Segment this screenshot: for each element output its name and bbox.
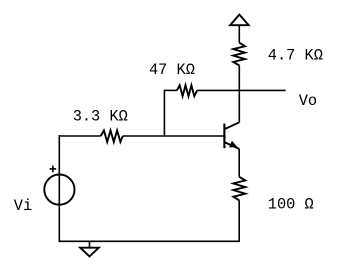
wire: Vcc to top of 4.7K resistor	[238, 25, 240, 43]
emitter diagonal	[224, 142, 239, 149]
wire: 4.7K bottom down to collector corner (through Vo node)	[238, 66, 240, 123]
resistor 4.7 KOhm (vertical)	[233, 43, 245, 66]
svg-text:Vi: Vi	[14, 197, 32, 215]
svg-text:4.7 KΩ: 4.7 KΩ	[268, 47, 323, 65]
resistor 47 KOhm (horizontal feedback)	[177, 85, 197, 96]
svg-text:Vo: Vo	[299, 92, 317, 110]
power supply symbol (Vcc arrow)	[230, 15, 249, 26]
svg-text:47 KΩ: 47 KΩ	[149, 61, 195, 79]
source Vi (circle)	[44, 175, 74, 205]
wire: left vertical through source Vi	[58, 135, 60, 242]
plus sign of source	[50, 166, 57, 173]
resistor 100 Ohm (vertical emitter)	[233, 177, 245, 201]
wire: source top to 3.3K left end	[59, 135, 101, 137]
wire: base wire from 3.3K to transistor base	[123, 135, 225, 137]
transistor Q1 (NPN)	[224, 122, 239, 149]
collector diagonal	[224, 122, 239, 129]
ground	[80, 241, 99, 256]
wire: feedback left leg down to base wire	[163, 90, 165, 136]
wire: 100 ohm bottom to ground rail	[238, 200, 240, 241]
svg-text:3.3 KΩ: 3.3 KΩ	[73, 108, 128, 126]
svg-text:100 Ω: 100 Ω	[268, 196, 314, 214]
base bar	[223, 124, 225, 149]
wire: bottom rail	[59, 240, 241, 242]
wire: output node horizontal to Vo	[164, 89, 177, 91]
emitter arrowhead	[229, 141, 237, 148]
resistor 3.3 KOhm (horizontal input)	[101, 130, 123, 142]
wire: emitter down to 100 ohm resistor	[238, 149, 240, 177]
